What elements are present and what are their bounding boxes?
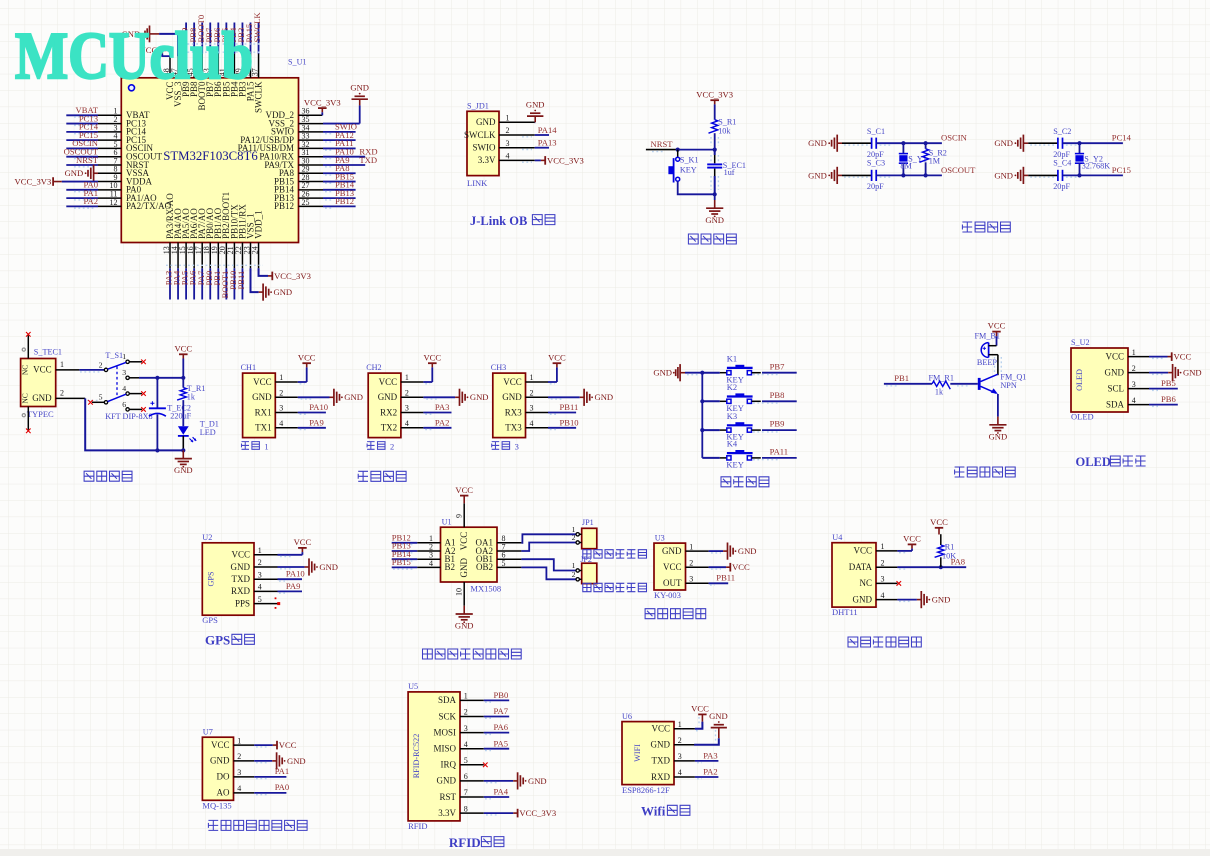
svg-text:GND: GND bbox=[32, 393, 52, 403]
S_TEC1 NC pin names bbox=[21, 365, 30, 404]
capacitor S_C1 bbox=[872, 138, 877, 149]
svg-text:MCUclub: MCUclub bbox=[15, 19, 253, 93]
MCU top pin 46 PB9 bbox=[178, 54, 191, 97]
key K1 bbox=[702, 354, 761, 385]
svg-text:PB12: PB12 bbox=[274, 201, 294, 211]
svg-text:U2: U2 bbox=[202, 533, 212, 542]
MCU left pin 3 PC14 bbox=[98, 123, 147, 136]
svg-text:RXD: RXD bbox=[651, 772, 671, 782]
S_TEC1 bottom NC pin bbox=[22, 407, 30, 434]
MCU left pin 5 OSCIN bbox=[98, 140, 154, 153]
ground (OLED) bbox=[1149, 364, 1202, 381]
MCU bottom pin 24 VDD_1 bbox=[250, 210, 263, 268]
wire net PA14 bbox=[522, 125, 557, 137]
svg-text:VCC: VCC bbox=[231, 550, 250, 560]
designator U5 bbox=[408, 682, 418, 691]
wire net PA2 (CH2 TX) bbox=[423, 418, 451, 430]
S_TEC1 pin 2 GND bbox=[32, 389, 85, 403]
wire net PA9 (GPS RXD) bbox=[278, 581, 303, 593]
wire net PA2 (WiFi RXD) bbox=[695, 766, 719, 778]
junction cap / ground rail bbox=[155, 448, 159, 452]
svg-text:TX1: TX1 bbox=[255, 423, 272, 433]
svg-text:VCC: VCC bbox=[33, 365, 52, 375]
wire net PB0 (MCU pin 18) bbox=[204, 268, 214, 299]
svg-text:T_S1: T_S1 bbox=[105, 351, 123, 360]
svg-text:U7: U7 bbox=[203, 727, 213, 736]
svg-text:1: 1 bbox=[1132, 348, 1136, 357]
GPS pin 4 RXD bbox=[231, 583, 278, 597]
driver U1 left pin 2 A2 bbox=[417, 542, 455, 555]
wire net PA5 (RFID MISO) bbox=[484, 738, 509, 750]
JP1 pin 1 bbox=[572, 525, 582, 536]
svg-text:TXD: TXD bbox=[652, 756, 671, 766]
wire net PA11 (MCU pin 32) bbox=[299, 138, 356, 150]
wire net PA3 (WiFi TXD) bbox=[695, 750, 719, 762]
switch T_S1 throw 6 bbox=[122, 400, 146, 412]
CH2 pin 1 VCC bbox=[379, 373, 424, 387]
svg-text:GND: GND bbox=[65, 168, 84, 178]
svg-text:2: 2 bbox=[258, 558, 262, 567]
svg-text:RFID-RC522: RFID-RC522 bbox=[412, 734, 421, 779]
designator CH2 bbox=[366, 363, 381, 372]
wire net NRST (MCU pin 7) bbox=[66, 155, 98, 167]
svg-text:32.768K: 32.768K bbox=[1082, 162, 1111, 171]
wire key to ground rail bbox=[678, 181, 715, 194]
wire net PB5 (OLED SCL) bbox=[1149, 378, 1178, 390]
svg-text:TXD: TXD bbox=[359, 155, 377, 165]
MCU bottom pin 20 PB2/BOOT1 bbox=[218, 192, 231, 268]
svg-text:PA4: PA4 bbox=[494, 787, 509, 797]
svg-text:220uF: 220uF bbox=[170, 412, 191, 421]
svg-text:GND: GND bbox=[808, 138, 827, 148]
key K4 bbox=[702, 439, 761, 470]
wire net PA11 (K4) bbox=[753, 447, 797, 460]
label serial port 2 bbox=[367, 442, 394, 452]
svg-text:GND: GND bbox=[476, 117, 496, 127]
wire net PB8 (MCU pin 45) bbox=[188, 23, 198, 54]
svg-text:KFT DIP-8X8: KFT DIP-8X8 bbox=[105, 412, 152, 421]
svg-text:GND: GND bbox=[470, 392, 489, 402]
title hall sensor bbox=[645, 609, 706, 619]
svg-text:3: 3 bbox=[258, 570, 262, 579]
wire net PA3 (MCU pin 13) bbox=[164, 268, 174, 299]
ground at MCU pin 47 VSS_3 bbox=[122, 26, 178, 57]
svg-text:Wifi: Wifi bbox=[641, 804, 666, 819]
connector CH1 body bbox=[243, 373, 276, 438]
svg-text:KY-003: KY-003 bbox=[654, 590, 681, 600]
svg-text:VDD_1: VDD_1 bbox=[253, 210, 263, 239]
MCU designator S_U1 bbox=[288, 58, 307, 67]
OLED pin 3 SCL bbox=[1107, 380, 1149, 394]
svg-text:S_C4: S_C4 bbox=[1053, 158, 1071, 167]
svg-text:2: 2 bbox=[237, 752, 241, 761]
svg-text:TYPEC: TYPEC bbox=[27, 409, 54, 419]
svg-text:2: 2 bbox=[60, 389, 64, 398]
U5 pin 3 MOSI bbox=[433, 724, 483, 738]
wire net PA6 (MCU pin 16) bbox=[188, 268, 198, 299]
MCU left pin 6 OSCOUT bbox=[98, 148, 163, 161]
crystal S_Y2 bbox=[1075, 143, 1110, 175]
svg-text:2: 2 bbox=[279, 389, 283, 398]
LED T_D1 bbox=[178, 419, 219, 442]
ground (CH3) bbox=[548, 389, 613, 406]
title serial circuit bbox=[358, 471, 406, 481]
title crystal circuit bbox=[962, 222, 1010, 232]
U7 pin 4 AO bbox=[217, 784, 255, 798]
svg-text:VCC: VCC bbox=[294, 537, 312, 547]
svg-text:VCC: VCC bbox=[279, 740, 297, 750]
capacitor S_C2 designator bbox=[1053, 127, 1071, 136]
MCU top pin 43 PB7 bbox=[202, 54, 215, 97]
svg-text:NC: NC bbox=[21, 393, 30, 403]
MCU left pin 9 VDDA bbox=[98, 173, 152, 186]
svg-text:PB10: PB10 bbox=[560, 418, 579, 428]
svg-text:PA9: PA9 bbox=[286, 581, 301, 591]
MCU left pin 7 NRST bbox=[98, 156, 150, 169]
wire net PB10 (MCU pin 21) bbox=[228, 268, 238, 299]
ground (power circuit) bbox=[174, 450, 193, 475]
OLED pin 1 VCC bbox=[1105, 348, 1149, 362]
svg-text:MX1508: MX1508 bbox=[470, 583, 501, 593]
svg-text:OLED: OLED bbox=[1071, 412, 1094, 422]
driver U1 right pin 6 OB1 bbox=[476, 551, 521, 564]
svg-text:4: 4 bbox=[279, 419, 283, 428]
svg-text:3.3V: 3.3V bbox=[438, 808, 456, 818]
MCU left pin 12 PA2/TX/AO bbox=[98, 198, 172, 211]
svg-text:GND: GND bbox=[808, 170, 827, 180]
designator S_U2 bbox=[1071, 338, 1090, 347]
svg-text:KEY: KEY bbox=[680, 165, 697, 174]
svg-text:2: 2 bbox=[881, 558, 885, 567]
wire net PA0 (AO) bbox=[254, 782, 289, 795]
power VCC (DHT11) bbox=[897, 534, 921, 553]
ground at J-Link pin 1 bbox=[526, 99, 545, 122]
svg-text:S_K1: S_K1 bbox=[680, 156, 699, 165]
svg-text:GND: GND bbox=[932, 595, 951, 605]
svg-text:SDA: SDA bbox=[438, 695, 457, 705]
label DC motor socket 1 bbox=[583, 550, 647, 558]
wire net PB4 (MCU pin 40) bbox=[228, 23, 238, 54]
designator U7 bbox=[203, 727, 213, 736]
svg-text:GND: GND bbox=[1105, 367, 1125, 377]
svg-text:OLED: OLED bbox=[1075, 369, 1084, 391]
U4 pin 4 GND bbox=[853, 591, 898, 605]
svg-text:PB15: PB15 bbox=[392, 557, 411, 567]
svg-text:1k: 1k bbox=[935, 388, 944, 397]
capacitor S_C2 value 20pF bbox=[1053, 150, 1070, 159]
label ESP8266-12F bbox=[622, 785, 670, 795]
svg-text:3: 3 bbox=[237, 768, 241, 777]
svg-text:VCC: VCC bbox=[253, 377, 272, 387]
compile marks below MCU bbox=[166, 264, 263, 266]
wire net PA8 (DATA) bbox=[897, 556, 966, 569]
wire T_R1 to LED bbox=[182, 400, 184, 426]
svg-text:VCC: VCC bbox=[853, 546, 872, 556]
svg-text:PA5: PA5 bbox=[494, 738, 509, 748]
svg-text:PB5: PB5 bbox=[1161, 378, 1176, 388]
title power circuit bbox=[84, 471, 132, 481]
capacitor S_C4 bbox=[1058, 170, 1063, 181]
svg-text:PA1: PA1 bbox=[275, 766, 290, 776]
svg-text:3: 3 bbox=[405, 404, 409, 413]
svg-text:1: 1 bbox=[689, 542, 693, 551]
MCU right pin 31 PA10/RX bbox=[259, 148, 309, 161]
svg-text:GND: GND bbox=[231, 562, 251, 572]
wire net BOOT0 (MCU pin 44) bbox=[196, 15, 206, 54]
label serial port 3 bbox=[492, 442, 519, 452]
svg-text:4: 4 bbox=[429, 559, 433, 568]
svg-text:PA2: PA2 bbox=[703, 766, 718, 776]
CH1 pin 4 TX1 bbox=[255, 419, 298, 433]
label DHT11 bbox=[832, 607, 858, 617]
U1 GND side label bbox=[459, 558, 469, 578]
wire net PA13 bbox=[522, 138, 557, 150]
connector CH2 body bbox=[368, 373, 401, 438]
svg-text:U4: U4 bbox=[832, 533, 842, 542]
wire net PB9 (MCU pin 46) bbox=[180, 23, 190, 54]
designator CH1 bbox=[241, 363, 256, 372]
svg-text:VCC: VCC bbox=[691, 704, 709, 714]
svg-text:9: 9 bbox=[454, 514, 463, 518]
title reset circuit bbox=[688, 234, 736, 244]
svg-text:S_TEC1: S_TEC1 bbox=[34, 348, 62, 357]
wire net PA4 (MCU pin 14) bbox=[172, 268, 182, 299]
svg-text:VCC: VCC bbox=[548, 352, 566, 362]
svg-text:8M: 8M bbox=[900, 162, 912, 171]
svg-text:4: 4 bbox=[237, 784, 241, 793]
U5 pin 8 3.3V bbox=[438, 804, 484, 818]
wire net PB14 (MCU pin 27) bbox=[299, 180, 356, 192]
svg-text:PB6: PB6 bbox=[1161, 394, 1177, 404]
module U7 body (MQ-135) bbox=[202, 737, 233, 800]
svg-text:3: 3 bbox=[689, 575, 693, 584]
MCU left pin 8 VSSA bbox=[98, 165, 150, 178]
MCU pin-1 marker ring bbox=[129, 85, 135, 91]
svg-text:2: 2 bbox=[572, 533, 576, 542]
MCU right pin 29 PA8 bbox=[279, 165, 310, 178]
svg-text:GND: GND bbox=[651, 740, 671, 750]
ground (MQ-135) bbox=[254, 752, 305, 769]
svg-text:3: 3 bbox=[530, 404, 534, 413]
U3 pin 3 OUT bbox=[663, 575, 709, 589]
svg-text:1: 1 bbox=[572, 561, 576, 570]
wire net PA1 (MCU pin 11) bbox=[66, 188, 98, 200]
power VCC (CH3) bbox=[548, 352, 566, 383]
net label OSCIN bbox=[880, 133, 968, 145]
MCU top pin 39 PB3 bbox=[234, 54, 247, 97]
driver U1 right pin 5 OB2 bbox=[476, 559, 521, 572]
driver U1 right pin 7 OA2 bbox=[476, 542, 522, 555]
svg-text:10: 10 bbox=[454, 588, 463, 596]
svg-text:S_C2: S_C2 bbox=[1053, 127, 1071, 136]
wire net SWCLK (MCU pin 37) bbox=[252, 12, 262, 54]
svg-text:VCC: VCC bbox=[459, 532, 469, 551]
svg-text:GND: GND bbox=[502, 392, 522, 402]
svg-text:SWIO: SWIO bbox=[473, 143, 496, 153]
svg-text:1: 1 bbox=[464, 692, 468, 701]
power VCC at MCU pin 48 bbox=[140, 45, 170, 56]
wire net PB6 (MCU pin 42) bbox=[212, 23, 222, 54]
switch T_S1 designator bbox=[105, 351, 123, 360]
svg-text:5: 5 bbox=[99, 393, 103, 402]
svg-text:J-Link OB: J-Link OB bbox=[470, 214, 527, 228]
ground (CH2) bbox=[423, 389, 488, 406]
power VCC (OLED) bbox=[1149, 352, 1191, 362]
svg-text:GPS: GPS bbox=[207, 571, 216, 586]
wire net PB13 (MCU pin 26) bbox=[299, 188, 356, 200]
svg-text:NRST: NRST bbox=[651, 139, 674, 149]
svg-text:1: 1 bbox=[279, 373, 283, 382]
capacitor S_C3 value 20pF bbox=[867, 182, 884, 191]
junction S_R2 top bbox=[924, 141, 928, 145]
ground (RFID) bbox=[484, 772, 547, 789]
title GPS module bbox=[205, 633, 254, 648]
wire net PA12 (MCU pin 33) bbox=[299, 130, 356, 142]
svg-text:PA2: PA2 bbox=[435, 418, 450, 428]
junction crystal top (S_Y1) bbox=[901, 141, 905, 145]
svg-text:TX2: TX2 bbox=[381, 423, 398, 433]
wire S_C1 to net OSCIN bbox=[876, 142, 942, 144]
resistor R1 bbox=[935, 534, 957, 567]
svg-text:NRST: NRST bbox=[76, 155, 99, 165]
ground (hall) bbox=[709, 543, 757, 560]
module U5 body (RFID-RC522) bbox=[408, 692, 460, 821]
svg-text:GND: GND bbox=[994, 138, 1013, 148]
title J-Link OB port bbox=[470, 214, 555, 228]
svg-text:1: 1 bbox=[258, 546, 262, 555]
wire S_C3 to net OSCOUT bbox=[876, 174, 942, 176]
wire net SWIO (MCU pin 34) bbox=[299, 122, 357, 134]
CH3 pin 4 TX3 bbox=[505, 419, 548, 433]
ground (DHT11) bbox=[897, 591, 950, 608]
key K3 bbox=[702, 411, 761, 442]
svg-text:SWCLK: SWCLK bbox=[464, 130, 496, 140]
svg-text:IRQ: IRQ bbox=[441, 760, 457, 770]
net label PC15 bbox=[1066, 165, 1131, 177]
U7 pin 1 VCC bbox=[211, 736, 254, 750]
U6 WIFI side label bbox=[633, 744, 642, 762]
U5 pin 5 IRQ bbox=[441, 756, 484, 770]
power VCC_3V3 at MCU pin 24 VDD_1 bbox=[259, 268, 311, 281]
svg-text:2: 2 bbox=[530, 389, 534, 398]
svg-text:VCC: VCC bbox=[455, 485, 473, 495]
svg-text:GND: GND bbox=[174, 465, 193, 475]
CH3 pin 2 GND bbox=[502, 389, 548, 403]
junction key bus K2 bbox=[700, 399, 704, 403]
driver U1 left pin 3 B1 bbox=[417, 551, 455, 564]
wire net PB12 (MCU pin 25) bbox=[299, 196, 356, 208]
svg-text:TX3: TX3 bbox=[505, 423, 522, 433]
J-Link pin 4 3.3V bbox=[478, 152, 535, 166]
svg-text:PPS: PPS bbox=[235, 598, 250, 608]
svg-text:R1: R1 bbox=[945, 542, 955, 551]
GPS PPS no-connect bbox=[275, 597, 281, 608]
power VCC_3V3 at J-Link pin 4 bbox=[522, 155, 584, 165]
capacitor S_C4 value 20pF bbox=[1053, 182, 1070, 191]
power VCC (WiFi) bbox=[691, 704, 709, 731]
wire net PB7 (K1) bbox=[753, 361, 797, 374]
designator U3 bbox=[655, 533, 665, 542]
wire net PA1 (DO) bbox=[254, 766, 289, 779]
svg-text:PA11: PA11 bbox=[770, 447, 788, 457]
title OLED display bbox=[1076, 455, 1146, 469]
svg-text:DATA: DATA bbox=[849, 562, 873, 572]
power VCC (buzzer) bbox=[988, 321, 1006, 346]
svg-text:GND: GND bbox=[528, 776, 547, 786]
U6 pin 2 GND bbox=[651, 736, 695, 750]
svg-text:CH1: CH1 bbox=[241, 363, 256, 372]
wire ground to capacitor S_C1 bbox=[842, 143, 872, 145]
power VCC (CH1) bbox=[298, 352, 316, 383]
svg-text:GND: GND bbox=[455, 621, 474, 631]
label LINK bbox=[467, 178, 488, 188]
svg-text:GND: GND bbox=[526, 99, 545, 109]
driver U1 body (MX1508) bbox=[441, 527, 498, 582]
svg-text:6: 6 bbox=[122, 400, 126, 409]
label DC motor socket 2 bbox=[583, 583, 647, 591]
svg-text:1k: 1k bbox=[187, 393, 196, 402]
svg-text:AO: AO bbox=[217, 788, 230, 798]
svg-text:4: 4 bbox=[1132, 396, 1136, 405]
svg-text:GND: GND bbox=[319, 562, 338, 572]
svg-text:GND: GND bbox=[344, 392, 363, 402]
designator JP1 bbox=[582, 518, 594, 527]
svg-text:VCC: VCC bbox=[174, 344, 192, 354]
wire net VBAT (MCU pin 1) bbox=[66, 105, 98, 117]
svg-text:20pF: 20pF bbox=[867, 182, 884, 191]
U4 NC no-connect bbox=[897, 581, 902, 586]
capacitor S_C1 designator bbox=[867, 127, 885, 136]
svg-text:2: 2 bbox=[506, 126, 510, 135]
label MQ-135 bbox=[202, 800, 231, 810]
wire net PC15 (MCU pin 4) bbox=[66, 130, 98, 142]
svg-text:PA3: PA3 bbox=[435, 402, 450, 412]
svg-text:PB8: PB8 bbox=[770, 390, 785, 400]
svg-text:VCC_3V3: VCC_3V3 bbox=[274, 271, 311, 281]
svg-text:JP1: JP1 bbox=[582, 518, 594, 527]
U5 IRQ no-connect bbox=[483, 763, 488, 768]
wire net PA2 (MCU pin 12) bbox=[66, 196, 98, 208]
svg-text:PA14: PA14 bbox=[538, 125, 557, 135]
svg-text:LINK: LINK bbox=[467, 178, 488, 188]
U7 pin 2 GND bbox=[210, 752, 254, 766]
wire net PC14 (MCU pin 3) bbox=[66, 122, 98, 134]
svg-text:PB9: PB9 bbox=[770, 419, 785, 429]
svg-text:4: 4 bbox=[405, 419, 409, 428]
svg-text:S_R1: S_R1 bbox=[718, 118, 736, 127]
svg-text:GND: GND bbox=[252, 392, 272, 402]
sheet bottom edge bbox=[0, 849, 1210, 856]
module U6 body (ESP8266) bbox=[622, 722, 674, 785]
ground (driver) bbox=[455, 606, 474, 631]
MCU top pin 47 VSS_3 bbox=[170, 54, 183, 107]
wire net OSCIN (MCU pin 5) bbox=[66, 138, 98, 150]
connector S_TEC1 body bbox=[21, 359, 56, 407]
svg-text:LED: LED bbox=[200, 428, 216, 437]
designator U1 (driver) bbox=[442, 517, 452, 526]
module U4 body (DHT11) bbox=[832, 543, 876, 607]
U1 VCC side label bbox=[459, 532, 469, 551]
svg-text:VCC: VCC bbox=[930, 517, 948, 527]
svg-text:1: 1 bbox=[405, 373, 409, 382]
wire net PB9 (K3) bbox=[753, 419, 797, 432]
svg-text:FM_R1: FM_R1 bbox=[929, 373, 954, 382]
connector S_JD1 body bbox=[467, 111, 499, 175]
wire net PA9 (MCU pin 30) bbox=[299, 155, 378, 167]
U4 pin 1 VCC bbox=[853, 542, 897, 556]
wire ground to capacitor S_C2 bbox=[1028, 143, 1058, 145]
CH1 pin 3 RX1 bbox=[255, 404, 298, 418]
